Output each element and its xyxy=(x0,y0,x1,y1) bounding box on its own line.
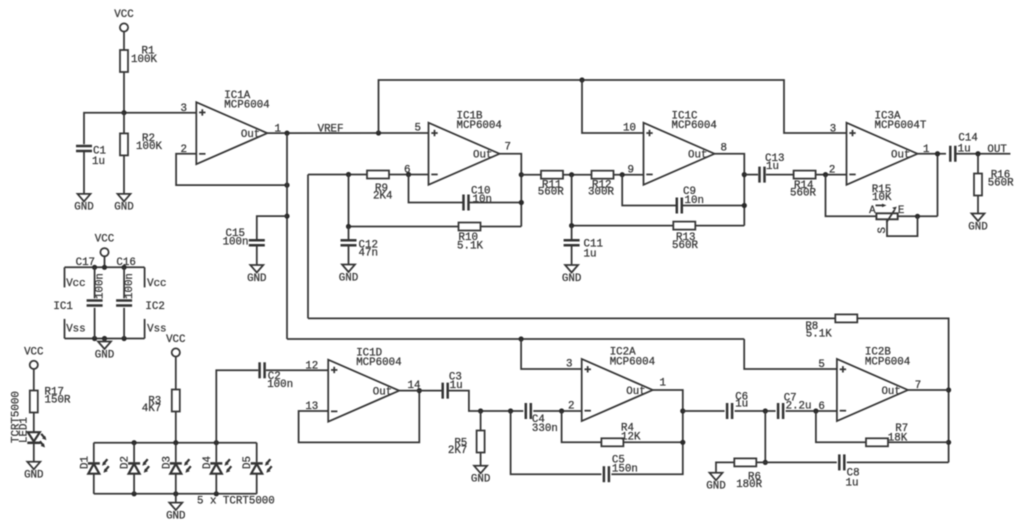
wire C2 to IC1D pin 12 xyxy=(266,369,328,371)
capacitor C3 1u xyxy=(443,371,463,398)
ground (decoupling) xyxy=(95,342,114,362)
svg-text:2K7: 2K7 xyxy=(448,445,467,457)
ground (R16) xyxy=(968,214,987,234)
svg-text:4K7: 4K7 xyxy=(142,403,161,415)
svg-text:Vcc: Vcc xyxy=(66,278,85,290)
svg-text:E: E xyxy=(898,205,904,217)
op-amp IC1C xyxy=(623,110,727,184)
svg-text:100n: 100n xyxy=(95,273,107,299)
svg-text:560R: 560R xyxy=(672,240,698,252)
svg-text:OUT: OUT xyxy=(987,144,1007,156)
wire C7 to IC2B pin 6 xyxy=(786,408,837,413)
wire C7 node down to C8 row xyxy=(763,411,768,465)
svg-text:GND: GND xyxy=(114,202,133,214)
wire decoupling top rail xyxy=(65,265,145,270)
ground (C1) xyxy=(74,194,93,214)
svg-text:GND: GND xyxy=(471,474,490,486)
wire feedback rail to R8 xyxy=(308,317,835,319)
svg-text:150R: 150R xyxy=(45,394,71,406)
op-amp IC1A xyxy=(181,90,281,164)
wire divider node to C1 xyxy=(84,113,124,145)
wire diode tap to C2 xyxy=(216,370,258,442)
svg-text:GND: GND xyxy=(247,273,266,285)
resistor R7 18K xyxy=(866,423,908,446)
resistor R13 560R xyxy=(672,222,698,252)
svg-text:12: 12 xyxy=(305,360,318,372)
svg-text:Out: Out xyxy=(241,129,260,141)
svg-text:5: 5 xyxy=(415,123,421,135)
ground (C11) xyxy=(562,265,581,285)
photodiode D4 xyxy=(202,443,232,494)
svg-text:47n: 47n xyxy=(359,248,378,260)
wire filter input vertical feeder xyxy=(307,175,309,319)
capacitor C8 1u xyxy=(839,454,859,489)
op-amp IC1D xyxy=(305,347,420,421)
wire decoupling bottom rail xyxy=(65,336,145,341)
resistor R10 5.1K xyxy=(457,223,483,253)
svg-text:Vss: Vss xyxy=(66,324,85,336)
wire R3 to diode rail xyxy=(175,412,177,443)
wire C11 branch xyxy=(571,226,573,240)
op-amp IC2B xyxy=(818,347,921,421)
svg-text:560R: 560R xyxy=(790,188,816,200)
svg-text:C17: C17 xyxy=(76,257,95,269)
capacitor C10 10n xyxy=(464,186,492,211)
svg-text:C16: C16 xyxy=(116,257,135,269)
svg-text:VCC: VCC xyxy=(95,234,115,246)
wire R5 node to C4 xyxy=(478,408,523,413)
svg-text:Out: Out xyxy=(891,150,910,162)
wire VREF rail to IC2A pin 3 xyxy=(521,339,582,369)
svg-text:2K4: 2K4 xyxy=(373,191,392,203)
capacitor C5 150n xyxy=(604,454,638,482)
resistor R4 12K xyxy=(601,422,641,446)
resistor R8 5.1K xyxy=(805,314,857,340)
power VCC (LED) xyxy=(24,346,44,369)
wire VREF top rail xyxy=(379,77,847,133)
wire R7 branch xyxy=(816,411,866,442)
svg-text:1u: 1u xyxy=(766,161,779,173)
svg-text:300R: 300R xyxy=(588,187,614,199)
svg-text:GND: GND xyxy=(95,349,114,361)
svg-text:D2: D2 xyxy=(120,456,132,469)
wire C11 to ground xyxy=(571,246,573,265)
svg-text:100n: 100n xyxy=(124,273,136,299)
svg-text:MCP6004: MCP6004 xyxy=(672,120,717,132)
LED LED1 TCRT5000 xyxy=(10,391,46,447)
wire R6 to ground stub xyxy=(716,462,734,472)
svg-text:Out: Out xyxy=(688,150,707,162)
wire VCC to decoupling rail xyxy=(104,256,106,267)
svg-text:3: 3 xyxy=(830,124,836,136)
svg-text:100n: 100n xyxy=(267,379,293,391)
wire C10 branch xyxy=(409,175,464,203)
resistor R9 2K4 xyxy=(367,171,392,203)
net OUT xyxy=(955,144,1010,156)
photodiode D5 xyxy=(242,443,272,494)
svg-text:D5: D5 xyxy=(242,456,254,469)
resistor R3 4K7 xyxy=(142,390,180,415)
wire C16 bottom xyxy=(123,308,125,339)
wire IC2A out to C6 xyxy=(683,410,725,412)
node IC2 Vcc/Vss power pins xyxy=(145,267,167,338)
wire C12 branch xyxy=(348,227,350,241)
wire C5 branch xyxy=(511,411,602,474)
op-amp IC1B xyxy=(404,110,511,184)
svg-text:6: 6 xyxy=(818,401,824,413)
wire C10 to IC1B out column xyxy=(469,202,522,204)
capacitor C12 47n xyxy=(341,240,378,260)
svg-text:IC1: IC1 xyxy=(53,301,72,313)
wire C1 to ground xyxy=(83,151,85,194)
wire IC1D feedback xyxy=(299,388,422,442)
capacitor C7 2.2u xyxy=(778,392,811,419)
node divider junction / wire to IC1A pin 3 xyxy=(121,110,196,115)
svg-text:100K: 100K xyxy=(136,141,162,153)
resistor R2 100K xyxy=(120,133,162,155)
wire R4 to IC2A out column xyxy=(623,441,682,443)
wire C9 to IC1C out column xyxy=(682,205,745,207)
wire VCC to R1 xyxy=(123,32,125,50)
ground (R2) xyxy=(114,194,133,214)
capacitor C1 1u xyxy=(76,146,106,169)
svg-text:GND: GND xyxy=(339,272,358,284)
wire top rail to IC1C pin 10 xyxy=(582,80,644,133)
svg-text:560R: 560R xyxy=(988,178,1014,190)
resistor R6 180R xyxy=(734,458,762,490)
wire C15 branch xyxy=(257,216,287,240)
capacitor C6 1u xyxy=(727,392,748,420)
wire R13 branch xyxy=(569,175,673,229)
wire diode top rail xyxy=(94,440,257,445)
wire VCC to R3 xyxy=(175,357,177,390)
svg-text:1: 1 xyxy=(660,378,666,390)
wire IC2B out xyxy=(907,389,949,391)
svg-text:D3: D3 xyxy=(161,456,173,469)
wire R7 to IC2B out column xyxy=(888,441,949,443)
svg-text:GND: GND xyxy=(562,273,581,285)
wire VREF rail to IC2B pin 5 xyxy=(744,339,837,369)
wire R15 to IC3A out xyxy=(937,154,939,217)
svg-text:10K: 10K xyxy=(872,192,892,204)
svg-text:5.1K: 5.1K xyxy=(806,329,832,341)
svg-text:GND: GND xyxy=(74,202,93,214)
svg-text:6: 6 xyxy=(404,165,410,177)
svg-text:330n: 330n xyxy=(532,423,558,435)
wire VREF rail to bottom section xyxy=(287,336,744,341)
photodiode D2 xyxy=(120,443,150,494)
wire R16 to ground xyxy=(977,196,979,214)
ground (C12) xyxy=(339,265,358,285)
wire C17 bottom xyxy=(94,308,96,339)
power VCC (R1 divider) xyxy=(114,9,134,32)
svg-text:560R: 560R xyxy=(538,187,564,199)
wire R13 to IC1C out column xyxy=(695,225,744,227)
svg-text:VCC: VCC xyxy=(24,346,44,358)
svg-text:100n: 100n xyxy=(223,236,249,248)
wire C15 to ground xyxy=(256,246,258,265)
svg-text:9: 9 xyxy=(628,165,634,177)
resistor R12 300R xyxy=(588,171,614,199)
node VREF / wire IC1A out to IC1B pin 5 xyxy=(267,123,428,135)
capacitor C13 1u xyxy=(760,153,785,183)
wire OUT node to R16 xyxy=(977,154,979,174)
wire IC1A feedback pin 2 xyxy=(176,154,290,188)
svg-text:MCP6004T: MCP6004T xyxy=(875,120,927,132)
svg-text:VCC: VCC xyxy=(166,334,186,346)
resistor R1 100K xyxy=(120,46,157,73)
wire divider node to R2 xyxy=(123,113,125,134)
wire IC2A output column xyxy=(653,390,686,445)
svg-text:MCP6004: MCP6004 xyxy=(224,100,269,112)
svg-text:Vcc: Vcc xyxy=(147,278,166,290)
wire IC1B output column xyxy=(500,154,524,227)
svg-text:2: 2 xyxy=(568,401,574,413)
resistor R14 560R xyxy=(790,171,816,200)
op-amp IC3A xyxy=(829,110,930,184)
svg-text:100K: 100K xyxy=(131,54,157,66)
svg-text:5 x TCRT5000: 5 x TCRT5000 xyxy=(197,495,275,507)
svg-text:A: A xyxy=(869,205,876,217)
svg-text:VREF: VREF xyxy=(318,123,344,135)
wire IC1C out to C13 xyxy=(744,174,758,176)
svg-text:1u: 1u xyxy=(846,477,859,489)
svg-text:8: 8 xyxy=(721,143,727,155)
wire C13 to R14 xyxy=(766,174,794,176)
wire decoupling rail to ground xyxy=(104,339,106,342)
svg-text:D1: D1 xyxy=(79,456,91,469)
wire R5 branch xyxy=(480,411,482,431)
wire IC1B out to R11 xyxy=(521,174,541,176)
wire R12 to IC1C pin 9 xyxy=(614,172,644,177)
svg-text:MCP6004: MCP6004 xyxy=(865,356,910,368)
wire C5 to IC2A out column xyxy=(611,442,682,474)
svg-text:GND: GND xyxy=(968,221,987,233)
svg-text:MCP6004: MCP6004 xyxy=(356,357,401,369)
wire IC1C output column xyxy=(715,154,747,226)
svg-text:MCP6004: MCP6004 xyxy=(457,120,502,132)
wire diode rail to ground xyxy=(175,494,177,503)
wire C16 top xyxy=(123,267,125,298)
wire R1 to divider node xyxy=(123,72,125,113)
wire R6 to C8 xyxy=(756,461,837,463)
svg-text:D4: D4 xyxy=(202,456,214,469)
svg-text:IC2: IC2 xyxy=(145,301,164,313)
svg-text:5.1K: 5.1K xyxy=(457,241,483,253)
ground (R6) xyxy=(706,473,725,493)
capacitor C16 100n xyxy=(116,257,136,306)
wire VCC to R17 xyxy=(33,369,35,391)
wire C6 to C7 xyxy=(735,408,776,413)
svg-text:3: 3 xyxy=(566,359,572,371)
svg-text:VCC: VCC xyxy=(114,9,134,21)
wire input node down to R10 xyxy=(346,175,459,230)
power VCC (photodiodes) xyxy=(166,334,186,357)
svg-text:3: 3 xyxy=(181,103,187,115)
svg-text:LED1: LED1 xyxy=(18,417,30,443)
svg-text:180R: 180R xyxy=(736,479,762,491)
wire R14 to IC3A pin 2 xyxy=(816,172,847,177)
photodiode D3 xyxy=(161,443,191,494)
wire R11 to R12 xyxy=(563,172,592,177)
capacitor C11 1u xyxy=(564,239,603,261)
potentiometer R15 10K xyxy=(826,175,938,237)
wire VREF vertical feeder xyxy=(284,133,289,339)
wire C4 to IC2A pin 2 xyxy=(533,408,581,413)
ground (R5) xyxy=(471,466,490,486)
svg-text:Out: Out xyxy=(626,386,645,398)
svg-text:GND: GND xyxy=(706,481,725,493)
svg-text:1u: 1u xyxy=(584,249,597,261)
capacitor C17 100n xyxy=(76,257,107,306)
capacitor C9 10n xyxy=(677,186,704,214)
capacitor C15 100n xyxy=(223,228,265,248)
svg-text:GND: GND xyxy=(24,470,43,482)
wire C8 to IC2B out column xyxy=(847,461,949,463)
resistor R17 150R xyxy=(30,387,71,413)
resistor R16 560R xyxy=(974,169,1014,195)
op-amp IC2A xyxy=(566,347,666,421)
svg-text:7: 7 xyxy=(505,142,511,154)
capacitor C4 330n xyxy=(526,403,558,435)
wire IC1D out to C3 xyxy=(399,390,442,392)
ground (C15) xyxy=(247,265,266,285)
svg-text:GND: GND xyxy=(166,510,185,522)
svg-text:Out: Out xyxy=(881,386,900,398)
svg-text:2: 2 xyxy=(829,165,835,177)
wire C12 to ground xyxy=(348,246,350,265)
wire IC3A out xyxy=(918,151,947,156)
wire C9 branch xyxy=(622,175,677,206)
svg-text:1u: 1u xyxy=(92,156,105,168)
power VCC (decoupling) xyxy=(95,234,115,257)
wire R4 branch xyxy=(562,411,602,442)
svg-text:1u: 1u xyxy=(735,398,748,410)
wire diode bottom rail xyxy=(94,491,275,507)
wire R9 to IC1B pin 6 xyxy=(389,172,429,177)
resistor R5 2K7 xyxy=(448,431,485,457)
svg-text:MCP6004: MCP6004 xyxy=(610,356,655,368)
ground (LED1) xyxy=(24,462,43,482)
capacitor C14 1u xyxy=(950,133,978,162)
photodiode D1 xyxy=(79,443,109,494)
capacitor C2 100n xyxy=(260,362,294,391)
svg-text:Out: Out xyxy=(473,150,492,162)
node IC1 Vcc/Vss power pins xyxy=(53,267,85,338)
wire R2 to ground xyxy=(123,155,125,194)
svg-text:Vss: Vss xyxy=(147,324,166,336)
wire LED1 to ground xyxy=(33,444,35,462)
wire R17 to LED1 xyxy=(33,413,35,433)
wire C3 to R5 node xyxy=(448,391,480,411)
wire R5 to ground xyxy=(480,453,482,466)
wire R10 to IC1B out column xyxy=(481,226,522,228)
resistor R11 560R xyxy=(538,171,564,199)
wire input node to R9 xyxy=(308,172,367,177)
wire R8 to IC2B out xyxy=(857,318,951,462)
svg-text:5: 5 xyxy=(818,359,824,371)
svg-text:10n: 10n xyxy=(473,194,492,206)
wire C17 top xyxy=(94,267,96,298)
ground (photodiodes) xyxy=(166,503,185,523)
svg-text:Out: Out xyxy=(373,386,392,398)
